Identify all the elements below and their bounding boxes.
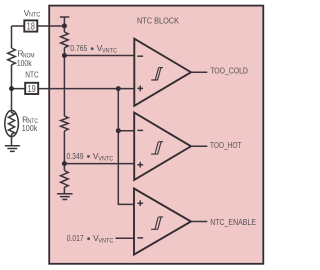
svg-text:TOO_COLD: TOO_COLD <box>210 66 248 76</box>
svg-text:VNTC: VNTC <box>98 238 113 245</box>
svg-text:100k: 100k <box>17 58 32 68</box>
svg-text:0.765: 0.765 <box>70 43 87 53</box>
svg-text:0.017: 0.017 <box>67 233 84 243</box>
svg-text:VNTC: VNTC <box>98 155 113 162</box>
svg-text:19: 19 <box>28 84 36 95</box>
svg-text:NTC: NTC <box>25 69 38 79</box>
svg-text:100k: 100k <box>22 123 38 133</box>
svg-text:VNTC: VNTC <box>102 48 117 55</box>
svg-text:NTC: NTC <box>29 12 41 19</box>
svg-text:TOO_HOT: TOO_HOT <box>210 140 241 150</box>
svg-text:NTC BLOCK: NTC BLOCK <box>137 15 179 25</box>
svg-text:18: 18 <box>27 22 36 33</box>
svg-text:NTC_ENABLE: NTC_ENABLE <box>210 217 256 227</box>
svg-text:0.349: 0.349 <box>67 151 84 161</box>
